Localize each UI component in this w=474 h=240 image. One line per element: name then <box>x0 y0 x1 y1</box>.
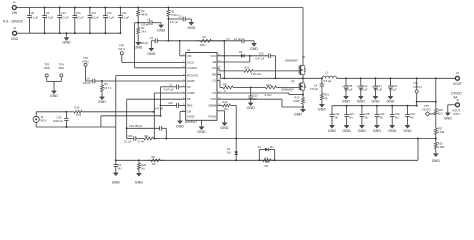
resistor R17 3.24k feedback top <box>435 124 437 128</box>
svg-text:CM: CM <box>187 110 191 114</box>
wire SW node <box>217 73 221 75</box>
svg-text:GND: GND <box>176 125 185 129</box>
svg-text:VOUT1: VOUT1 <box>413 85 422 89</box>
capacitor C12 input 2.2uF <box>89 8 91 16</box>
svg-text:C23: C23 <box>253 93 258 97</box>
node sync junction <box>101 80 103 82</box>
node feedback tap <box>435 138 437 140</box>
svg-text:2.2 µF: 2.2 µF <box>91 15 99 19</box>
svg-text:COMP: COMP <box>187 91 195 95</box>
svg-text:R7: R7 <box>265 156 269 160</box>
wire RT SYNC row <box>116 75 186 77</box>
svg-text:R9: R9 <box>145 134 149 138</box>
svg-text:2.2 µF: 2.2 µF <box>61 15 69 19</box>
svg-text:C27: C27 <box>349 112 354 116</box>
svg-text:SW: SW <box>212 72 217 76</box>
svg-text:GND: GND <box>112 181 121 185</box>
wire input ground rail <box>29 32 120 34</box>
wire NU cap rail <box>332 105 417 107</box>
svg-text:NU: NU <box>410 115 414 119</box>
svg-text:R10: R10 <box>245 66 250 70</box>
capacitor C16 output 680 µF <box>360 77 362 79</box>
inductor L1 6.8uH <box>321 77 323 79</box>
svg-text:GND: GND <box>294 113 303 117</box>
wire UVLO node down <box>135 22 139 24</box>
svg-text:GND: GND <box>328 129 337 133</box>
svg-text:VOUT2: VOUT2 <box>422 108 431 112</box>
wire VOUT rail <box>337 77 456 79</box>
resistor R11 0 ohm gate Q2 <box>217 80 220 82</box>
svg-text:6.0 - 36VDC: 6.0 - 36VDC <box>3 20 24 24</box>
capacitor C9 comp series <box>127 138 134 140</box>
capacitor C29 NU output <box>376 105 378 107</box>
resistor R10 2.49 ohm gate Q1 <box>217 67 219 69</box>
wire bottom return line <box>116 159 418 161</box>
connector J2 GND input terminal <box>13 31 17 35</box>
svg-text:RAMP: RAMP <box>187 79 195 83</box>
svg-text:D1: D1 <box>227 147 231 151</box>
svg-text:1.0 µF: 1.0 µF <box>234 37 242 41</box>
wire Q2 drain to SW <box>302 78 304 81</box>
capacitor C11 input 2.2uF <box>74 8 76 16</box>
svg-text:2.2 µF: 2.2 µF <box>76 15 84 19</box>
svg-text:0.47 µF: 0.47 µF <box>170 21 179 24</box>
svg-text:GND: GND <box>386 99 395 103</box>
svg-text:C19 150 pF: C19 150 pF <box>129 124 143 128</box>
svg-text:LM25117: LM25117 <box>185 120 198 124</box>
svg-text:RES: RES <box>187 103 193 107</box>
svg-text:0 ohm: 0 ohm <box>265 93 272 97</box>
resistor R8 NU in line <box>146 159 151 161</box>
svg-text:R25: R25 <box>141 163 146 167</box>
capacitor C5 100pF sync <box>86 80 93 82</box>
wire C1 to sync vertical <box>160 87 162 116</box>
svg-text:R11: R11 <box>223 83 228 87</box>
svg-text:49.9k: 49.9k <box>141 13 148 17</box>
svg-text:680 µF: 680 µF <box>359 87 368 91</box>
connector J3 VOUT terminal <box>455 76 459 80</box>
resistor R21 snubber 10 <box>321 91 323 94</box>
svg-text:27.4k: 27.4k <box>138 140 145 144</box>
svg-text:GND: GND <box>358 129 367 133</box>
svg-text:SS: SS <box>187 85 191 89</box>
resistor R19 5.76 <box>66 111 74 113</box>
capacitor C31 NU output <box>407 105 409 107</box>
svg-text:GND: GND <box>135 181 144 185</box>
wire feedback column top <box>435 77 437 79</box>
wire RAMP row from TP2 <box>102 80 186 82</box>
wire bootstrap to SW <box>274 56 276 79</box>
svg-text:GND: GND <box>342 99 351 103</box>
svg-text:0 ohm: 0 ohm <box>171 13 178 17</box>
resistor R12 NU DEMB <box>217 104 223 106</box>
svg-text:R14: R14 <box>267 83 272 87</box>
svg-text:R8: R8 <box>152 155 156 159</box>
svg-text:C29: C29 <box>380 112 385 116</box>
capacitor C17 output 680 µF <box>375 77 377 79</box>
wire VCCDIS row <box>135 67 186 69</box>
ground C2 <box>150 41 152 47</box>
svg-text:NU: NU <box>265 164 269 168</box>
capacitor C24 NU output <box>331 106 333 115</box>
svg-text:NU: NU <box>395 115 399 119</box>
resistor R18 56.2 <box>435 105 437 109</box>
svg-text:C30: C30 <box>395 112 400 116</box>
svg-text:SYNC: SYNC <box>82 60 89 64</box>
svg-text:R12: R12 <box>223 100 228 104</box>
wire feedback column mid <box>435 119 437 125</box>
svg-text:C10: C10 <box>61 11 66 15</box>
svg-text:UVLO: UVLO <box>187 61 194 65</box>
wire DEMB down to D1 <box>235 105 237 138</box>
resistor R13 current sense 0.008 <box>302 92 304 95</box>
svg-text:GND: GND <box>357 99 366 103</box>
svg-text:FB: FB <box>187 97 191 101</box>
wire COMP pin to comp network <box>154 92 185 94</box>
svg-text:NU: NU <box>224 107 228 111</box>
svg-text:GND: GND <box>187 26 196 30</box>
capacitor C9 input 2.2uF <box>44 8 46 16</box>
svg-text:HB: HB <box>212 60 216 64</box>
svg-text:14 k: 14 k <box>141 29 147 33</box>
svg-text:C6: C6 <box>147 18 151 22</box>
connector J6 RCA sync jack <box>33 116 39 122</box>
svg-text:470 pF: 470 pF <box>310 87 318 91</box>
wire RCA top <box>35 112 37 117</box>
svg-text:820 pF: 820 pF <box>140 41 148 45</box>
svg-text:R21: R21 <box>324 92 329 96</box>
svg-text:NU: NU <box>270 145 274 149</box>
svg-text:C24: C24 <box>335 112 340 116</box>
svg-text:D2: D2 <box>239 50 243 54</box>
svg-text:C9b: C9b <box>128 134 133 138</box>
svg-text:2.2 µF: 2.2 µF <box>31 15 39 19</box>
ground snubber <box>320 103 324 107</box>
svg-text:GND: GND <box>371 99 380 103</box>
svg-text:GND: GND <box>44 66 50 70</box>
svg-text:56.2: 56.2 <box>438 111 444 115</box>
diode D2 bootstrap <box>217 55 241 57</box>
svg-text:GND: GND <box>50 94 59 98</box>
svg-text:2.49 ohm: 2.49 ohm <box>251 72 262 76</box>
svg-text:R19: R19 <box>75 106 80 110</box>
wire CSG pin <box>217 98 282 100</box>
resistor R25 NU <box>138 159 140 161</box>
svg-text:0.047 µF: 0.047 µF <box>164 88 175 92</box>
svg-text:R6: R6 <box>104 82 108 86</box>
svg-text:CS: CS <box>212 91 216 95</box>
svg-text:NU: NU <box>335 115 339 119</box>
svg-text:GND: GND <box>62 41 71 45</box>
svg-text:GND: GND <box>444 116 453 120</box>
svg-text:C28: C28 <box>365 112 370 116</box>
svg-text:NU: NU <box>380 115 384 119</box>
svg-text:TP3: TP3 <box>44 62 49 66</box>
svg-text:GND: GND <box>373 129 382 133</box>
svg-text:C4: C4 <box>118 163 122 167</box>
svg-text:TP7: TP7 <box>424 104 429 108</box>
capacitor C7 VCC 1.0uF <box>223 40 225 42</box>
svg-text:HO: HO <box>212 66 216 70</box>
svg-text:R4: R4 <box>141 26 145 30</box>
resistor R7 NU <box>259 159 263 161</box>
capacitor C30 NU output <box>391 105 393 107</box>
resistor R1 0 ohm VIN feed <box>167 7 169 9</box>
svg-text:0.1 µF: 0.1 µF <box>124 140 132 144</box>
wire sense line <box>417 101 436 103</box>
svg-text:5.76: 5.76 <box>76 113 82 117</box>
resistor R2 105k <box>196 40 201 42</box>
svg-text:2.2 µF: 2.2 µF <box>122 15 130 19</box>
svg-text:GND: GND <box>432 159 441 163</box>
connector J1 VIN input terminal <box>12 6 16 10</box>
svg-text:202: 202 <box>265 161 270 164</box>
svg-text:NU: NU <box>118 166 122 170</box>
svg-text:C11: C11 <box>76 11 81 15</box>
svg-text:GND: GND <box>403 129 412 133</box>
resistor R9 27.4k comp <box>140 138 144 140</box>
wire bottom line to FB line <box>417 139 419 161</box>
svg-text:Q2: Q2 <box>291 79 295 83</box>
wire VCC node line <box>168 40 224 42</box>
svg-text:GND: GND <box>98 100 107 104</box>
wire UVLO pin <box>122 62 186 64</box>
svg-text:23.7 k: 23.7 k <box>104 86 112 90</box>
svg-text:C14: C14 <box>122 11 127 15</box>
svg-text:NU: NU <box>141 166 145 170</box>
capacitor C4 NU <box>115 159 117 161</box>
svg-text:LO: LO <box>213 79 216 83</box>
capacitor C23 NU gate <box>250 86 252 88</box>
svg-text:R18: R18 <box>438 108 443 112</box>
svg-text:GND: GND <box>157 29 166 33</box>
svg-text:C5: C5 <box>87 76 91 80</box>
svg-text:VOUT: VOUT <box>453 82 462 86</box>
svg-text:R2: R2 <box>203 35 207 39</box>
capacitor C2 820pF <box>151 40 155 42</box>
svg-text:6.8 µH: 6.8 µH <box>324 79 332 83</box>
svg-text:TP4: TP4 <box>59 62 64 66</box>
svg-text:GND: GND <box>58 66 64 70</box>
capacitor C18 output 1.0 µF <box>390 77 392 79</box>
svg-text:C2: C2 <box>150 36 154 40</box>
resistor R14 0 ohm gate Q2 series <box>248 86 266 88</box>
svg-text:GND: GND <box>342 129 351 133</box>
svg-text:680 µF: 680 µF <box>344 87 353 91</box>
svg-text:VIN: VIN <box>187 54 191 58</box>
wire sync vertical to VCCDIS line <box>115 76 117 161</box>
svg-text:AGND: AGND <box>187 115 195 119</box>
svg-text:1.0 µF: 1.0 µF <box>389 87 397 91</box>
svg-text:C13: C13 <box>107 11 112 15</box>
svg-text:RT/SYNC: RT/SYNC <box>187 74 198 78</box>
op-amp U1 LM25117 controller IC <box>186 53 217 121</box>
svg-text:105 k: 105 k <box>200 43 207 47</box>
node UVLO divider junction <box>137 22 139 24</box>
svg-text:U1: U1 <box>187 48 191 52</box>
capacitor C22 RES 0.47uF <box>161 104 177 106</box>
ground R13 <box>301 108 305 112</box>
capacitor C6 UVLO filter 100pF <box>138 22 150 24</box>
svg-text:2.2 µF: 2.2 µF <box>46 15 54 19</box>
wire VCC pin and C7 to SW vertical <box>223 55 225 57</box>
svg-text:0.47 µF: 0.47 µF <box>154 106 163 110</box>
svg-text:GND: GND <box>388 129 397 133</box>
svg-text:3: 3 <box>183 66 184 68</box>
svg-text:GND: GND <box>220 126 229 130</box>
capacitor C26 1000pF <box>65 112 67 119</box>
svg-text:C1: C1 <box>169 83 173 87</box>
diode Z1 NU with R7 NU <box>258 159 260 161</box>
svg-text:TP8: TP8 <box>413 81 418 85</box>
capacitor C19 150pF comp <box>126 127 128 129</box>
wire TP3 TP4 to ground <box>47 81 62 83</box>
capacitor C27 NU output <box>346 105 348 107</box>
ground R4 <box>137 39 139 42</box>
wire RCA bottom <box>35 123 37 128</box>
capacitor C13 input 2.2uF <box>104 8 106 16</box>
svg-text:VCCDIS: VCCDIS <box>187 66 197 70</box>
capacitor C14 input 2.2uF <box>119 8 121 16</box>
svg-text:PGND: PGND <box>209 115 217 119</box>
svg-text:1.05k: 1.05k <box>438 145 445 149</box>
capacitor C3 snubber <box>321 78 323 84</box>
svg-text:1000 pF: 1000 pF <box>53 119 63 123</box>
svg-text:C22: C22 <box>168 101 173 105</box>
wire J4 to ground <box>448 104 456 106</box>
wire CM pin to ground <box>180 111 186 113</box>
svg-text:GND: GND <box>197 130 206 134</box>
diode D1 NU clamp <box>235 138 237 140</box>
svg-text:VCC: VCC <box>211 54 217 58</box>
connector J4 VOUT RTN terminal <box>456 103 460 107</box>
capacitor C10 input 2.2uF <box>59 8 61 16</box>
svg-text:C9: C9 <box>46 11 50 15</box>
svg-text:SiR848ADP: SiR848ADP <box>281 89 294 92</box>
wire VIN pin drop <box>179 41 181 56</box>
ground C3 <box>190 19 192 21</box>
svg-text:C31: C31 <box>410 112 415 116</box>
svg-text:RTN: RTN <box>454 112 460 116</box>
svg-text:R17: R17 <box>438 126 443 130</box>
wire CS pin <box>217 92 289 94</box>
svg-text:NU: NU <box>227 150 231 154</box>
svg-text:3.24k: 3.24k <box>438 130 445 134</box>
capacitor C28 NU output <box>361 105 363 107</box>
svg-text:C4: C4 <box>314 84 318 88</box>
capacitor C3 VIN filter <box>167 18 169 20</box>
svg-text:GND: GND <box>318 107 327 111</box>
svg-text:NU: NU <box>152 162 156 166</box>
svg-text:100 pF: 100 pF <box>83 81 91 85</box>
ground AGND pin <box>201 120 203 125</box>
svg-text:SiR848ADP: SiR848ADP <box>285 60 298 63</box>
capacitor C1 RAMP 0.047uF <box>161 86 177 88</box>
svg-text:C25: C25 <box>259 52 264 56</box>
wire FB pin <box>127 98 186 100</box>
ground PGND pin <box>217 110 225 112</box>
svg-text:DEMB: DEMB <box>209 103 217 107</box>
svg-text:C8: C8 <box>31 11 35 15</box>
ground feedback divider <box>434 152 438 156</box>
capacitor C8 input 2.2uF <box>28 8 30 16</box>
svg-text:2: 2 <box>183 61 184 63</box>
resistor R16 1.05k feedback bottom <box>435 139 437 143</box>
svg-text:GND: GND <box>250 47 259 51</box>
svg-text:1: 1 <box>183 54 184 56</box>
wire FB long line <box>157 138 436 140</box>
svg-text:R13: R13 <box>295 95 300 99</box>
capacitor C15 output 680 µF <box>345 77 347 79</box>
svg-text:RCA: RCA <box>41 119 47 123</box>
svg-text:GND: GND <box>11 37 19 41</box>
resistor R6 23.7k sync to ground <box>101 81 103 85</box>
svg-text:UVLO: UVLO <box>118 47 125 51</box>
svg-text:R16: R16 <box>438 141 443 145</box>
wire VIN top rail <box>29 7 303 9</box>
ground C7 <box>253 41 255 42</box>
svg-text:VIN: VIN <box>12 11 18 15</box>
wire VIN rail to Q1 drain <box>302 8 304 64</box>
ground input rail <box>66 33 68 36</box>
svg-text:0.008: 0.008 <box>293 99 300 103</box>
svg-text:R3: R3 <box>141 9 145 13</box>
svg-text:C7: C7 <box>227 37 231 41</box>
svg-text:680 µF: 680 µF <box>374 87 383 91</box>
wire RCA shell return jog <box>100 116 102 127</box>
svg-text:GND: GND <box>147 52 156 56</box>
svg-text:GND: GND <box>134 45 143 49</box>
svg-text:0.47 µF: 0.47 µF <box>256 57 265 61</box>
capacitor C25 0.47uF bootstrap <box>249 55 251 57</box>
svg-text:R1: R1 <box>171 9 175 13</box>
svg-text:100 pF: 100 pF <box>141 23 149 27</box>
svg-text:NU: NU <box>365 115 369 119</box>
wire HB pin <box>217 61 250 63</box>
svg-text:2.2 µF: 2.2 µF <box>107 15 115 19</box>
svg-text:CSG: CSG <box>210 97 216 101</box>
svg-text:NU: NU <box>349 115 353 119</box>
ground UVLO cap <box>160 22 162 25</box>
resistor R4 14.3k UVLO bottom <box>137 23 139 28</box>
svg-text:C12: C12 <box>91 11 96 15</box>
resistor R3 49.9k UVLO top <box>137 7 139 9</box>
svg-text:GND: GND <box>247 106 256 110</box>
